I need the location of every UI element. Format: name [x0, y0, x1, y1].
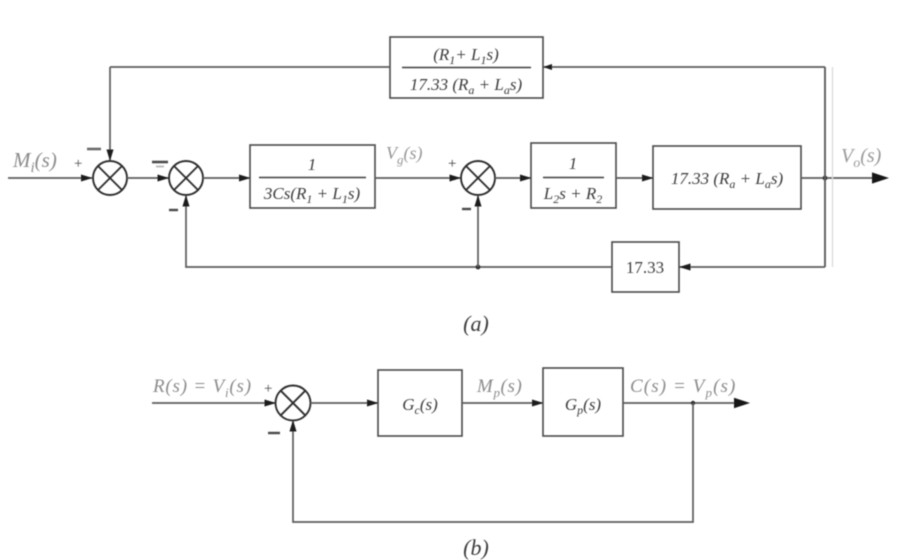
wire top feedback left segment from H1 to S1	[110, 66, 390, 68]
svg-text:+: +	[264, 381, 272, 397]
svg-text:+: +	[448, 156, 456, 172]
svg-text:Vo(s): Vo(s)	[841, 145, 882, 171]
block Gc	[378, 370, 462, 436]
block G2 1/(L2s+R2)	[531, 143, 616, 208]
wire Gc to Gp	[462, 402, 543, 404]
svg-text:Mi(s): Mi(s)	[12, 148, 57, 176]
wire S2 to block G1	[203, 177, 250, 179]
svg-text:1: 1	[308, 155, 317, 174]
block Gp	[543, 368, 623, 436]
node takeoff junction on output wire	[823, 176, 828, 181]
wire S3 to block G2	[495, 177, 531, 179]
svg-text:3Cs(R1 + L1s): 3Cs(R1 + L1s)	[263, 184, 361, 206]
wire vertical takeoff line	[824, 67, 826, 267]
svg-text:17.33: 17.33	[626, 258, 664, 277]
node minus sign at S1 top input	[87, 148, 101, 151]
block G3 17.33(Ra+Las)	[653, 146, 801, 209]
wire input to summer S4	[152, 402, 276, 404]
summing junction S2	[169, 161, 203, 195]
summing junction S3	[461, 161, 495, 195]
svg-text:(a): (a)	[463, 311, 489, 336]
svg-text:Vg(s): Vg(s)	[386, 143, 423, 167]
summing junction S4	[276, 386, 311, 421]
svg-text:(R1+ L1s): (R1+ L1s)	[433, 45, 499, 67]
wire G1 to S3	[375, 177, 461, 179]
wire input to summer S1	[8, 177, 92, 179]
block G1 1/(3Cs(R1+L1s))	[250, 145, 375, 208]
svg-text:Gc(s): Gc(s)	[402, 395, 438, 417]
wire top feedback right segment into H1	[544, 66, 826, 68]
block H1 (R1+L1s)/(17.33(Ra+Las))	[390, 37, 543, 98]
wire bottom feedback from takeoff to H2	[680, 266, 826, 268]
node minus sign at S2 bottom input	[169, 209, 178, 211]
block H2 17.33	[612, 242, 679, 292]
svg-text:1: 1	[569, 154, 578, 173]
wire top feedback down into S1	[109, 67, 111, 161]
svg-text:17.33 (Ra + Las): 17.33 (Ra + Las)	[671, 169, 784, 191]
svg-text:(b): (b)	[463, 535, 489, 560]
wire Gp to output	[623, 402, 736, 404]
node minus sign at S3 bottom input	[462, 208, 471, 210]
node minus sign at S2 left input	[152, 161, 168, 164]
svg-text:C(s) = Vp(s): C(s) = Vp(s)	[630, 376, 736, 400]
svg-text:Mp(s): Mp(s)	[476, 376, 522, 400]
svg-text:R(s) = Vi(s): R(s) = Vi(s)	[152, 376, 252, 400]
wire G3 to output	[801, 177, 874, 179]
node takeoff junction	[691, 401, 695, 405]
wire branch up into S3	[477, 196, 479, 268]
wire bottom feedback from H2 to S2	[186, 196, 612, 268]
svg-text:+: +	[74, 156, 82, 172]
wire S4 to Gc	[311, 402, 379, 404]
node junction dot at S3 branch	[476, 265, 481, 270]
svg-text:L2s + R2: L2s + R2	[543, 184, 602, 206]
svg-text:Gp(s): Gp(s)	[565, 395, 602, 417]
node minus sign at S4 bottom input	[268, 432, 280, 434]
wire feedback loop b	[293, 403, 693, 522]
wire G2 to block G3	[616, 177, 653, 179]
svg-text:17.33 (Ra + Las): 17.33 (Ra + Las)	[410, 75, 523, 97]
wire S1 to S2	[127, 177, 169, 179]
summing junction S1	[93, 161, 127, 195]
